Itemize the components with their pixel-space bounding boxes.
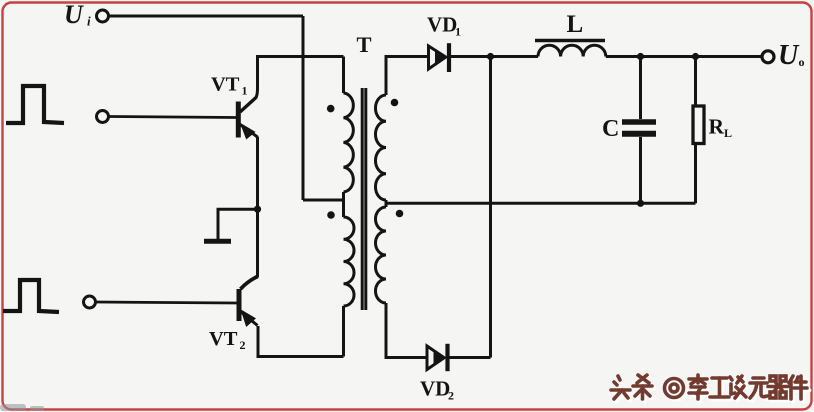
transistor VT1 label xyxy=(211,74,248,98)
pulse input 1 xyxy=(6,86,64,123)
transistor VT2 xyxy=(239,277,258,327)
wire RL node to output xyxy=(696,55,763,58)
terminal base VT2 xyxy=(84,296,96,308)
svg-text:1: 1 xyxy=(242,84,248,98)
pulse input 2 xyxy=(3,280,59,312)
terminal base VT1 xyxy=(97,111,109,123)
inductor L core bar xyxy=(535,39,605,42)
transformer polarity dot secondary upper xyxy=(391,99,399,107)
wire primary tap stub xyxy=(342,192,345,217)
transformer secondary top lead xyxy=(386,57,429,96)
wire VD2 to link xyxy=(448,356,491,359)
transformer primary lower winding xyxy=(344,217,355,306)
wire base VT1 xyxy=(109,117,237,118)
diode VD1 xyxy=(429,43,450,72)
svg-text:L: L xyxy=(567,11,584,38)
node after VD1 xyxy=(487,53,494,60)
transformer polarity dot primary lower xyxy=(327,211,335,219)
transformer secondary upper winding xyxy=(375,95,386,200)
node emitter junction xyxy=(254,206,261,213)
wire node to inductor xyxy=(491,55,539,58)
transformer primary upper winding xyxy=(344,93,354,192)
svg-text:VD: VD xyxy=(427,13,457,37)
node cap bottom xyxy=(637,200,644,207)
svg-text:o: o xyxy=(799,55,805,69)
wire cap node to RL node xyxy=(641,55,696,58)
node Ui label xyxy=(64,0,91,29)
inductor L xyxy=(538,45,606,56)
wire output rail xyxy=(386,202,696,205)
wire secondary tap stub xyxy=(385,200,388,207)
svg-text:U: U xyxy=(64,0,84,29)
wire base VT2 xyxy=(96,302,238,303)
wire ground link xyxy=(218,209,258,239)
resistor RL label xyxy=(709,115,733,141)
svg-text:2: 2 xyxy=(240,338,246,352)
wire center tap primary xyxy=(303,199,344,202)
svg-text:VT: VT xyxy=(211,74,240,96)
transformer polarity dot primary upper xyxy=(327,105,335,113)
svg-text:R: R xyxy=(709,115,725,139)
svg-text:L: L xyxy=(724,126,732,140)
wire VD1 to node xyxy=(449,55,491,58)
diode VD2 xyxy=(427,344,448,371)
transistor VT2 label xyxy=(209,328,246,352)
node cap top xyxy=(637,53,644,60)
ground xyxy=(204,239,231,244)
wire VD1 node down link xyxy=(489,57,492,358)
wire inductor to cap node xyxy=(606,55,641,58)
terminal Uo xyxy=(762,51,774,63)
wire Ui feed top xyxy=(109,15,304,18)
terminal Ui xyxy=(97,10,109,22)
diode VD2 label xyxy=(420,377,454,403)
transformer secondary lower winding xyxy=(376,207,387,303)
corner smudge xyxy=(0,404,44,411)
svg-text:C: C xyxy=(602,116,619,142)
wire Ui feed vertical xyxy=(302,16,305,200)
transformer core xyxy=(362,88,366,310)
svg-text:VT: VT xyxy=(209,328,238,350)
wire VT1 emitter down xyxy=(256,137,259,278)
node RL top xyxy=(692,53,699,60)
resistor RL xyxy=(693,57,704,204)
wire VT1 collector up xyxy=(256,57,344,99)
transformer secondary bottom lead xyxy=(386,303,427,358)
transformer primary top lead xyxy=(342,57,345,94)
svg-text:1: 1 xyxy=(455,25,461,39)
svg-text:i: i xyxy=(87,14,91,29)
svg-text:2: 2 xyxy=(448,389,454,403)
svg-text:VD: VD xyxy=(420,377,450,401)
transformer polarity dot secondary lower xyxy=(396,210,404,218)
diode VD1 label xyxy=(427,13,461,39)
node Uo label xyxy=(778,40,805,71)
wire VT2 emitter down xyxy=(258,326,344,357)
transistor VT1 xyxy=(238,98,257,139)
svg-text:U: U xyxy=(778,40,800,71)
svg-text:T: T xyxy=(357,32,372,57)
transformer primary bottom lead xyxy=(342,306,345,357)
capacitor C xyxy=(622,57,656,204)
